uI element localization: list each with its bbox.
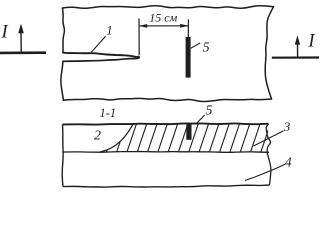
left current lead wire — [0, 51, 46, 54]
right current lead wire — [272, 56, 319, 58]
svg-text:4: 4 — [285, 154, 292, 169]
svg-text:I: I — [307, 32, 315, 52]
section left edge (break line) — [61, 124, 64, 186]
plate (specimen, plan view) outline with edge crack notch — [61, 6, 274, 102]
section right edge of layer 3 (break line) — [266, 124, 270, 153]
crack tip junction blob — [137, 56, 140, 59]
potential probe bar 5 (section view) — [186, 123, 191, 139]
curved boundary of unhatched zone 2 — [101, 124, 134, 152]
base plate 4 bottom line (section) — [63, 185, 270, 187]
leader line for crack label 1 — [91, 36, 105, 52]
svg-text:5: 5 — [206, 102, 213, 117]
svg-text:2: 2 — [94, 129, 101, 144]
dimension extension line right (to probe) — [187, 19, 189, 37]
potential probe bar 5 (plan view) — [186, 37, 191, 78]
leader line for probe label 5 (section) — [197, 115, 204, 122]
coated layer 3 top surface line (section) — [63, 123, 269, 124]
svg-text:5: 5 — [203, 41, 210, 56]
svg-text:1-1: 1-1 — [100, 106, 117, 120]
section right edge of base 4 (break line) — [267, 152, 271, 185]
left current arrow (up) with shaft — [18, 24, 24, 53]
leader line for layer label 3 — [254, 131, 284, 146]
dimension line 15 cm with arrowheads — [139, 24, 188, 28]
svg-text:15 см: 15 см — [149, 11, 177, 25]
leader line for base label 4 — [245, 164, 285, 180]
interface line between layer 3 and base 4 — [63, 151, 269, 154]
svg-text:3: 3 — [283, 119, 291, 134]
right current arrow (up) with shaft — [295, 35, 300, 56]
svg-text:I: I — [1, 23, 9, 43]
svg-text:1: 1 — [106, 24, 112, 38]
dimension extension line left (at crack tip) — [138, 18, 140, 55]
leader line for probe label 5 (plan) — [191, 43, 200, 48]
